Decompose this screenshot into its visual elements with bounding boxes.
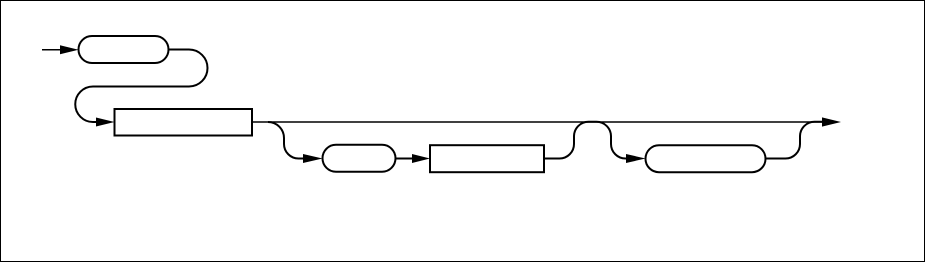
terminal pill T3	[646, 145, 766, 172]
hump wire from N2 up to main line and down to T3	[544, 122, 627, 159]
terminal pill T1	[79, 36, 169, 63]
arrowhead into N1	[96, 118, 115, 127]
end arrowhead	[822, 117, 841, 126]
main wire	[252, 121, 823, 123]
non-terminal box N2	[430, 145, 544, 172]
exit wire T3 up to main line	[766, 122, 823, 159]
entry wire	[42, 49, 62, 51]
arrowhead into T3	[626, 154, 646, 163]
branch wire down from main to T2	[268, 122, 303, 159]
wire T2 to N2	[396, 158, 414, 160]
arrowhead into N2	[412, 154, 430, 163]
wire S-curve from T1 down to N1	[75, 50, 207, 123]
non-terminal box N1	[115, 109, 253, 136]
arrowhead into T2	[303, 154, 323, 163]
terminal pill T2	[323, 145, 396, 172]
entry arrowhead	[60, 45, 79, 54]
